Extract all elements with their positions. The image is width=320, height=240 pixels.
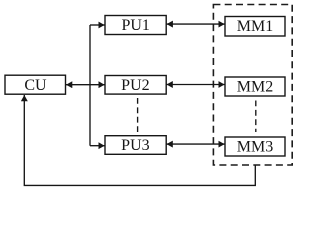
dashed enclosure (memory modules group)	[213, 5, 292, 166]
wire PU3 to MM3 (bidirectional)	[167, 143, 225, 145]
wire feedback from memory group to CU	[24, 95, 255, 185]
svg-text:MM2: MM2	[237, 79, 273, 96]
svg-text:PU2: PU2	[121, 77, 149, 94]
wire PU1 to MM1 (bidirectional)	[167, 23, 225, 25]
svg-text:MM3: MM3	[237, 139, 273, 156]
block MM3	[225, 137, 285, 156]
svg-text:PU3: PU3	[121, 137, 149, 154]
block CU	[5, 75, 66, 94]
block PU3	[105, 136, 166, 155]
block PU1	[105, 16, 166, 35]
svg-text:CU: CU	[24, 77, 47, 94]
ellipsis dashed wire between MM2 and MM3	[255, 101, 257, 133]
wire PU2 to MM2 (bidirectional)	[167, 84, 225, 86]
wire branch to PU3	[90, 145, 105, 147]
wire trunk from CU to PU branches	[89, 25, 91, 146]
svg-text:PU1: PU1	[121, 17, 149, 34]
wire CU to PU2 (bidirectional)	[66, 84, 105, 86]
block PU2	[105, 76, 166, 95]
wire branch to PU1	[90, 24, 105, 26]
block MM2	[225, 77, 285, 96]
block MM1	[225, 17, 285, 37]
ellipsis dashed wire between PU2 and PU3	[137, 98, 139, 132]
svg-text:MM1: MM1	[237, 18, 273, 35]
